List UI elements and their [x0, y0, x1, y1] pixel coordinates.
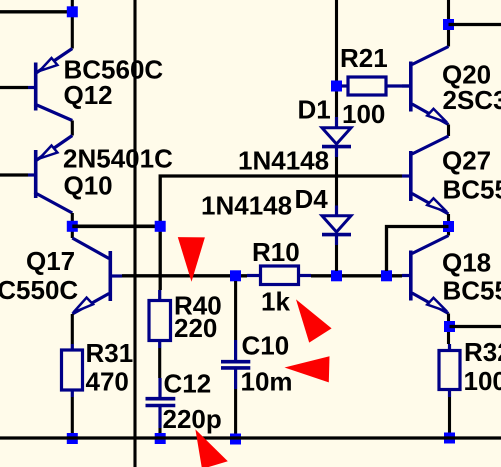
node J10 — [444, 321, 455, 332]
wire Q20 emitter to Q27 collector — [447, 125, 450, 137]
resistor R10 — [247, 266, 311, 285]
wire D4 cathode to J8 — [335, 245, 338, 271]
wire Q17 emitter down to R31 — [71, 314, 74, 344]
wire vertical bus x=135 — [133, 0, 136, 467]
svg-text:R32: R32 — [464, 337, 501, 367]
wire R31 bottom to rail — [71, 397, 74, 434]
wire C10 bottom to rail — [234, 389, 237, 434]
wire top-left horizontal to node — [0, 10, 72, 13]
svg-text:C10: C10 — [242, 330, 290, 360]
probe marker 2 — [296, 299, 332, 342]
svg-text:2SC350: 2SC350 — [443, 85, 501, 115]
wire C10 top from J7 — [234, 281, 237, 340]
wire R40 bottom to C12 — [158, 348, 161, 378]
resistor R21 — [342, 77, 410, 95]
node J1 — [67, 6, 78, 17]
svg-text:Q10: Q10 — [64, 170, 113, 200]
svg-text:100: 100 — [464, 366, 501, 396]
svg-text:C12: C12 — [164, 369, 212, 399]
probe marker 4 — [195, 429, 227, 467]
capacitor C10 — [221, 340, 250, 389]
svg-text:R31: R31 — [86, 338, 134, 368]
resistor R31 — [62, 344, 83, 397]
svg-text:220p: 220p — [163, 404, 222, 434]
wire J6 left and down to J9 — [387, 227, 449, 272]
diode D4 — [322, 206, 351, 246]
transistor Q17 — [72, 238, 122, 314]
wire J10 to right edge — [450, 325, 501, 328]
node J2 — [443, 19, 454, 30]
svg-text:1N4148: 1N4148 — [238, 145, 329, 175]
svg-text:2N5401C: 2N5401C — [63, 143, 173, 173]
svg-text:470: 470 — [86, 367, 129, 397]
probe marker 1 — [178, 237, 205, 282]
wire bottom rail — [0, 436, 501, 439]
svg-text:1N4148: 1N4148 — [201, 190, 292, 220]
node J4 — [155, 221, 166, 232]
svg-text:BC550C: BC550C — [443, 275, 501, 305]
wire Q10 base — [0, 173, 28, 176]
wire diode branch vertical x=336.5 from top — [335, 0, 338, 117]
svg-text:100: 100 — [342, 99, 385, 129]
wire between D1 and D4 — [335, 157, 338, 206]
svg-text:D4: D4 — [295, 184, 329, 214]
wire R10 right to J8 and J9 — [311, 274, 402, 277]
node J12 — [155, 433, 166, 444]
transistor Q18 — [402, 236, 449, 314]
node J8 — [331, 270, 342, 281]
wire Q12 base — [0, 86, 28, 89]
capacitor C12 — [146, 378, 176, 428]
svg-text:R21: R21 — [340, 43, 388, 73]
probe marker 3 — [285, 356, 330, 382]
node J7 — [230, 270, 241, 281]
wire right column vertical from top edge — [447, 0, 450, 47]
svg-text:Q17: Q17 — [26, 246, 75, 276]
transistor Q27 — [402, 136, 449, 214]
node J3 — [331, 81, 342, 92]
svg-text:BC550C: BC550C — [0, 275, 78, 305]
node J11 — [67, 433, 78, 444]
svg-text:R10: R10 — [252, 237, 300, 267]
svg-text:1k: 1k — [261, 286, 290, 316]
wire long horizontal y=176 from corner to Q27 base — [160, 176, 402, 290]
resistor R32 — [439, 344, 460, 397]
transistor Q10 — [28, 136, 72, 214]
wire J2 to right edge — [449, 23, 501, 26]
wire left column vertical from top edge — [71, 0, 74, 49]
svg-text:220: 220 — [174, 313, 217, 343]
diode D1 — [322, 117, 351, 157]
svg-text:10m: 10m — [241, 367, 293, 397]
wire C12 bottom to rail — [158, 428, 161, 434]
wire y=275.5 from Q17 base to Q18 base — [122, 274, 247, 277]
svg-text:Q27: Q27 — [442, 145, 491, 175]
node J13 — [230, 434, 241, 445]
wire Q27 emitter to J6 — [447, 214, 450, 236]
svg-text:Q12: Q12 — [64, 80, 113, 110]
node J9 — [381, 270, 392, 281]
svg-text:Q18: Q18 — [442, 247, 491, 277]
wire Q18 emitter to J10 — [447, 314, 450, 345]
wire J5 to J4 horizontal — [72, 225, 160, 229]
node J5 — [67, 221, 78, 232]
resistor R40 — [149, 290, 171, 348]
svg-text:D1: D1 — [298, 94, 331, 124]
wire R32 bottom to rail — [448, 397, 451, 434]
wire between Q12 collector and Q10 emitter — [71, 121, 74, 136]
wire Q10 collector to node J5 — [71, 213, 74, 238]
transistor Q20 — [402, 47, 449, 125]
node J6 — [443, 221, 454, 232]
svg-text:BC550C: BC550C — [443, 174, 501, 204]
node J14 — [444, 433, 455, 444]
transistor Q12 — [28, 49, 72, 121]
